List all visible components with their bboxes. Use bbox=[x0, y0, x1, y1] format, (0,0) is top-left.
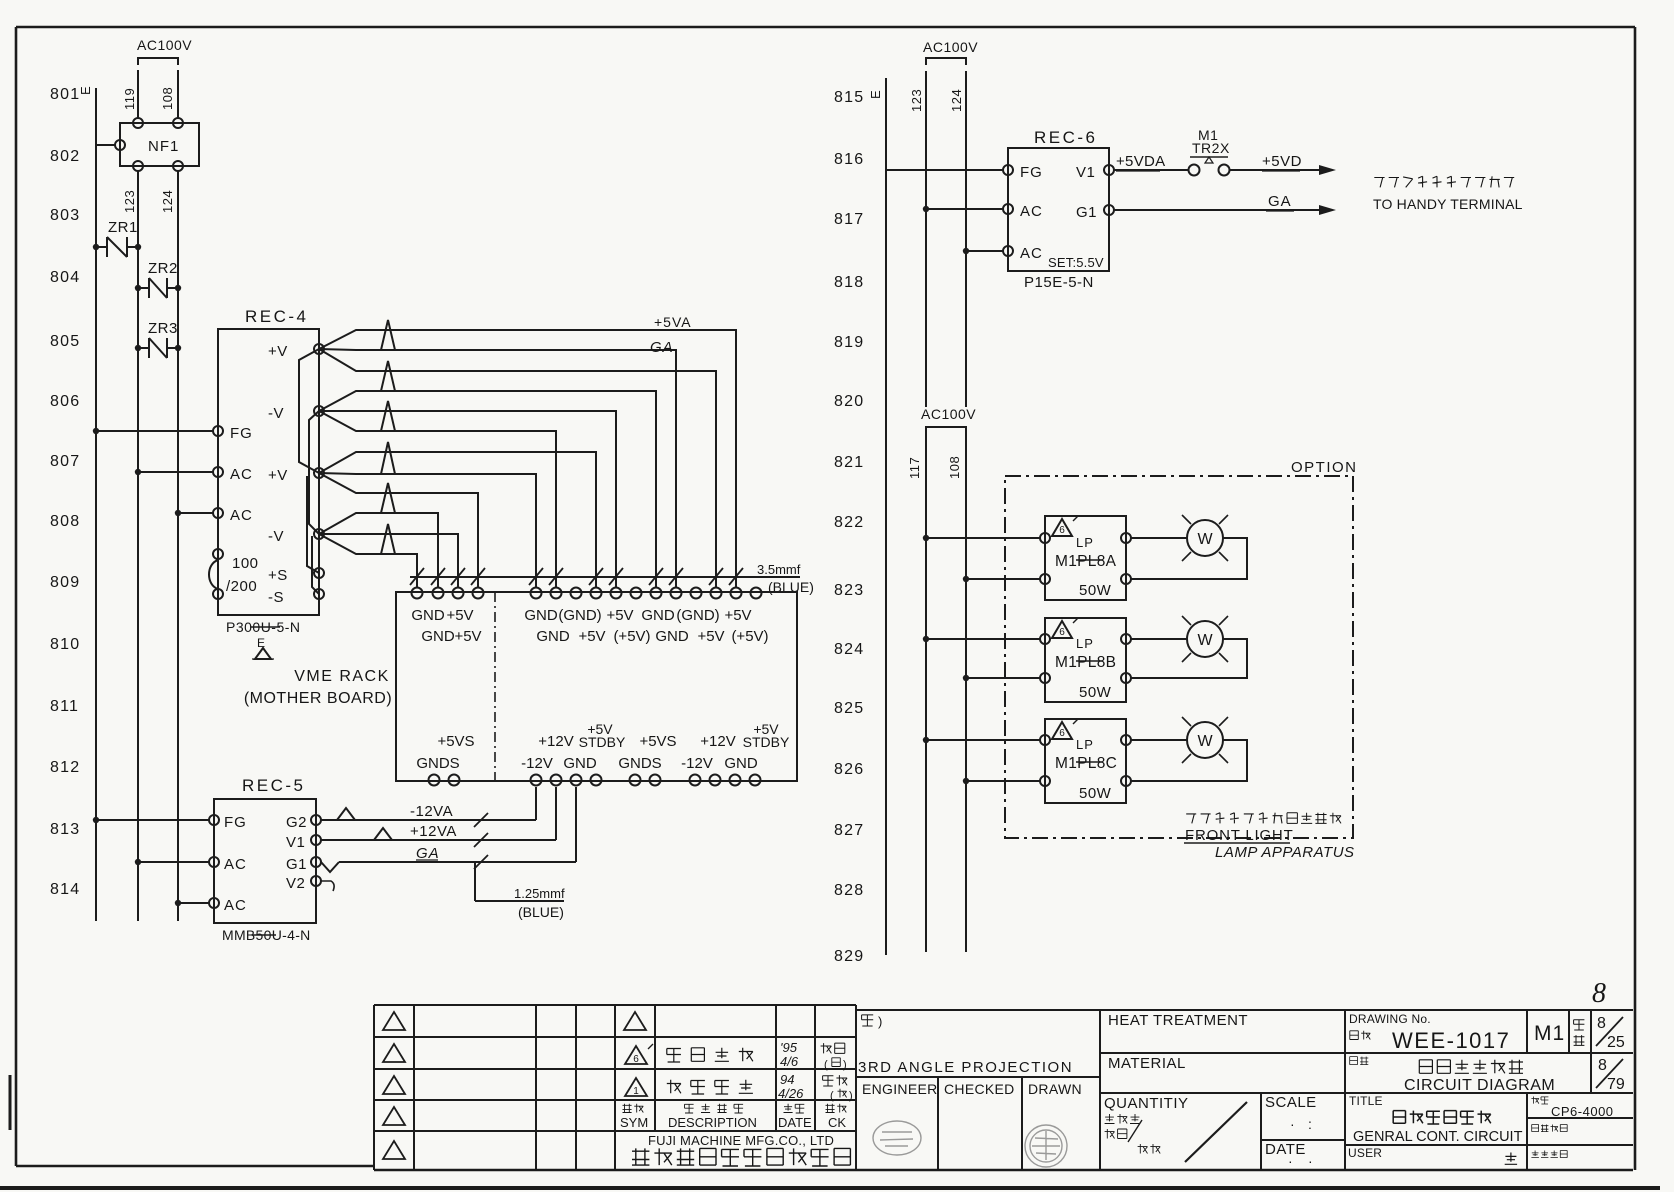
svg-text:(BLUE): (BLUE) bbox=[518, 904, 564, 920]
svg-text:4/26: 4/26 bbox=[778, 1086, 804, 1101]
svg-text:AC: AC bbox=[230, 466, 253, 483]
svg-text:8: 8 bbox=[1597, 1015, 1606, 1032]
svg-text:V1: V1 bbox=[1076, 164, 1095, 181]
svg-text:822: 822 bbox=[834, 514, 864, 531]
svg-text:828: 828 bbox=[834, 882, 864, 899]
svg-text:'95: '95 bbox=[780, 1040, 798, 1055]
svg-text:806: 806 bbox=[50, 393, 80, 410]
svg-text:): ) bbox=[849, 1090, 853, 1102]
svg-text:GND: GND bbox=[536, 628, 570, 645]
svg-text:QUANTITIY: QUANTITIY bbox=[1104, 1095, 1189, 1112]
svg-text:SYM: SYM bbox=[620, 1115, 648, 1130]
svg-text:+5V: +5V bbox=[578, 628, 605, 645]
svg-text:ZR3: ZR3 bbox=[148, 320, 178, 337]
svg-text:DRAWN: DRAWN bbox=[1028, 1081, 1082, 1097]
svg-text:G1: G1 bbox=[1076, 204, 1097, 221]
svg-text:813: 813 bbox=[50, 821, 80, 838]
svg-text:·: · bbox=[1288, 1153, 1293, 1169]
svg-text:+5V: +5V bbox=[724, 607, 751, 624]
svg-text:GND: GND bbox=[655, 628, 689, 645]
svg-text:826: 826 bbox=[834, 761, 864, 778]
svg-text:E: E bbox=[78, 86, 93, 95]
svg-text:809: 809 bbox=[50, 574, 80, 591]
svg-text:6: 6 bbox=[1059, 627, 1065, 638]
svg-text:-12V: -12V bbox=[681, 755, 713, 772]
svg-text:GND: GND bbox=[641, 607, 675, 624]
svg-text:+12V: +12V bbox=[700, 733, 735, 750]
svg-text:123: 123 bbox=[909, 89, 924, 112]
svg-text:25: 25 bbox=[1607, 1034, 1625, 1051]
svg-text:50W: 50W bbox=[1079, 684, 1112, 701]
svg-text:108: 108 bbox=[947, 456, 962, 479]
svg-text:VME RACK: VME RACK bbox=[294, 668, 390, 685]
svg-text:GND: GND bbox=[724, 755, 758, 772]
svg-text:M1PL8C: M1PL8C bbox=[1055, 755, 1117, 772]
svg-text:LAMP APPARATUS: LAMP APPARATUS bbox=[1215, 844, 1355, 861]
svg-text:REC-5: REC-5 bbox=[242, 776, 306, 795]
svg-text:825: 825 bbox=[834, 700, 864, 717]
svg-text:808: 808 bbox=[50, 513, 80, 530]
svg-text:119: 119 bbox=[122, 88, 137, 110]
svg-text:W: W bbox=[1197, 733, 1213, 750]
svg-text:817: 817 bbox=[834, 211, 864, 228]
svg-text:/200: /200 bbox=[226, 578, 257, 595]
svg-text:803: 803 bbox=[50, 207, 80, 224]
svg-text:FG: FG bbox=[224, 814, 247, 831]
svg-text:FRONT LIGHT: FRONT LIGHT bbox=[1185, 827, 1294, 844]
svg-text:6: 6 bbox=[1059, 525, 1065, 536]
svg-text:ENGINEER: ENGINEER bbox=[862, 1081, 938, 1097]
svg-text:WEE-1017: WEE-1017 bbox=[1392, 1028, 1510, 1053]
svg-text:117: 117 bbox=[907, 457, 922, 479]
svg-text:820: 820 bbox=[834, 393, 864, 410]
svg-text:): ) bbox=[878, 1014, 882, 1029]
svg-text:M1: M1 bbox=[1534, 1022, 1565, 1045]
svg-text:SCALE: SCALE bbox=[1265, 1094, 1317, 1111]
svg-text:CP6-4000: CP6-4000 bbox=[1551, 1104, 1614, 1119]
svg-text:1.25mmf: 1.25mmf bbox=[514, 886, 565, 901]
svg-text:NF1: NF1 bbox=[148, 138, 179, 155]
svg-text:·: · bbox=[1290, 1116, 1295, 1132]
svg-text:AC: AC bbox=[1020, 203, 1043, 220]
svg-text:GENRAL CONT. CIRCUIT: GENRAL CONT. CIRCUIT bbox=[1353, 1129, 1523, 1145]
svg-text:3.5mmf: 3.5mmf bbox=[757, 562, 801, 577]
svg-text:(: ( bbox=[830, 1090, 834, 1102]
svg-text:AC: AC bbox=[1020, 245, 1043, 262]
svg-text:8: 8 bbox=[1592, 978, 1606, 1009]
svg-text:100: 100 bbox=[232, 555, 259, 572]
svg-text:+V: +V bbox=[268, 467, 288, 484]
svg-text:REC-6: REC-6 bbox=[1034, 128, 1098, 147]
svg-text:8: 8 bbox=[1598, 1057, 1607, 1074]
svg-text:-S: -S bbox=[268, 589, 284, 606]
svg-text:LP: LP bbox=[1076, 535, 1094, 550]
svg-text:TO HANDY TERMINAL: TO HANDY TERMINAL bbox=[1373, 196, 1523, 212]
svg-text:GA: GA bbox=[1268, 193, 1292, 210]
svg-text:79: 79 bbox=[1607, 1076, 1625, 1093]
svg-text:DATE: DATE bbox=[1265, 1141, 1306, 1158]
svg-text:819: 819 bbox=[834, 334, 864, 351]
svg-text:3RD ANGLE PROJECTION: 3RD ANGLE PROJECTION bbox=[858, 1059, 1073, 1076]
svg-text:823: 823 bbox=[834, 582, 864, 599]
svg-text:+12VA: +12VA bbox=[410, 823, 457, 840]
svg-text:804: 804 bbox=[50, 269, 80, 286]
svg-text:+5VD: +5VD bbox=[1262, 153, 1302, 170]
svg-text:1: 1 bbox=[633, 1086, 639, 1097]
svg-text:AC100V: AC100V bbox=[137, 37, 192, 53]
svg-text:+S: +S bbox=[268, 567, 288, 584]
svg-text:LP: LP bbox=[1076, 737, 1094, 752]
svg-text:GA: GA bbox=[650, 339, 674, 356]
svg-text:DESCRIPTION: DESCRIPTION bbox=[668, 1115, 757, 1130]
svg-text:CIRCUIT DIAGRAM: CIRCUIT DIAGRAM bbox=[1404, 1077, 1555, 1094]
svg-text:816: 816 bbox=[834, 151, 864, 168]
svg-text:M1PL8B: M1PL8B bbox=[1055, 654, 1116, 671]
svg-text:812: 812 bbox=[50, 759, 80, 776]
svg-text:G2: G2 bbox=[286, 814, 307, 831]
svg-text:GND: GND bbox=[421, 628, 455, 645]
svg-text::: : bbox=[1308, 1116, 1312, 1132]
svg-text:814: 814 bbox=[50, 881, 80, 898]
svg-text:(: ( bbox=[824, 1059, 828, 1071]
svg-text:GND: GND bbox=[411, 607, 445, 624]
svg-text:·: · bbox=[1308, 1153, 1313, 1169]
svg-text:108: 108 bbox=[160, 87, 175, 110]
svg-text:STDBY: STDBY bbox=[579, 734, 626, 750]
svg-text:ZR2: ZR2 bbox=[148, 260, 178, 277]
svg-text:+5VDA: +5VDA bbox=[1116, 153, 1165, 170]
svg-text:+5V: +5V bbox=[446, 607, 473, 624]
svg-text:ZR1: ZR1 bbox=[108, 219, 138, 236]
svg-text:AC: AC bbox=[224, 856, 247, 873]
svg-text:+5VA: +5VA bbox=[654, 314, 692, 330]
svg-text:-12VA: -12VA bbox=[410, 803, 453, 820]
svg-text:HEAT TREATMENT: HEAT TREATMENT bbox=[1108, 1012, 1248, 1029]
svg-text:+12V: +12V bbox=[538, 733, 573, 750]
svg-text:-V: -V bbox=[268, 405, 284, 422]
svg-text:(GND): (GND) bbox=[676, 607, 719, 624]
svg-text:TITLE: TITLE bbox=[1349, 1094, 1383, 1108]
svg-text:W: W bbox=[1197, 531, 1213, 548]
svg-text:FG: FG bbox=[1020, 164, 1043, 181]
svg-text:+5VS: +5VS bbox=[437, 733, 474, 750]
svg-text:AC: AC bbox=[230, 507, 253, 524]
svg-text:MATERIAL: MATERIAL bbox=[1108, 1055, 1186, 1072]
svg-text:50W: 50W bbox=[1079, 582, 1112, 599]
svg-text:V1: V1 bbox=[286, 834, 305, 851]
svg-text:802: 802 bbox=[50, 148, 80, 165]
svg-text:124: 124 bbox=[949, 89, 964, 112]
svg-text:+5V: +5V bbox=[697, 628, 724, 645]
svg-text:(GND): (GND) bbox=[558, 607, 601, 624]
svg-text:SET:5.5V: SET:5.5V bbox=[1048, 255, 1104, 270]
svg-text:USER: USER bbox=[1348, 1146, 1382, 1160]
svg-text:AC100V: AC100V bbox=[923, 39, 978, 55]
svg-text:DATE: DATE bbox=[778, 1115, 812, 1130]
svg-text:815: 815 bbox=[834, 89, 864, 106]
svg-text:V2: V2 bbox=[286, 875, 305, 892]
svg-text:824: 824 bbox=[834, 641, 864, 658]
svg-text:+5V: +5V bbox=[454, 628, 481, 645]
svg-text:805: 805 bbox=[50, 333, 80, 350]
svg-text:801: 801 bbox=[50, 86, 80, 103]
svg-text:CHECKED: CHECKED bbox=[944, 1081, 1015, 1097]
svg-text:+5V: +5V bbox=[606, 607, 633, 624]
svg-text:+5VS: +5VS bbox=[639, 733, 676, 750]
svg-text:GNDS: GNDS bbox=[618, 755, 661, 772]
svg-text:): ) bbox=[843, 1059, 847, 1071]
svg-text:OPTION: OPTION bbox=[1291, 459, 1358, 476]
svg-text:(MOTHER BOARD): (MOTHER BOARD) bbox=[244, 690, 392, 707]
svg-text:P15E-5-N: P15E-5-N bbox=[1024, 274, 1094, 291]
svg-text:829: 829 bbox=[834, 948, 864, 965]
svg-text:REC-4: REC-4 bbox=[245, 307, 309, 326]
svg-text:94: 94 bbox=[780, 1072, 794, 1087]
svg-text:4/6: 4/6 bbox=[780, 1054, 799, 1069]
svg-text:(+5V): (+5V) bbox=[731, 628, 768, 645]
svg-text:AC: AC bbox=[224, 897, 247, 914]
svg-text:TR2X: TR2X bbox=[1192, 140, 1230, 156]
svg-text:GNDS: GNDS bbox=[416, 755, 459, 772]
svg-text:818: 818 bbox=[834, 274, 864, 291]
svg-text:DRAWING No.: DRAWING No. bbox=[1349, 1012, 1431, 1026]
svg-text:50W: 50W bbox=[1079, 785, 1112, 802]
svg-text:FUJI MACHINE MFG.CO., LTD: FUJI MACHINE MFG.CO., LTD bbox=[648, 1133, 834, 1148]
svg-text:-12V: -12V bbox=[521, 755, 553, 772]
svg-text:AC100V: AC100V bbox=[921, 406, 976, 422]
svg-text:810: 810 bbox=[50, 636, 80, 653]
svg-text:GND: GND bbox=[563, 755, 597, 772]
svg-text:6: 6 bbox=[1059, 728, 1065, 739]
svg-text:CK: CK bbox=[828, 1115, 846, 1130]
svg-text:W: W bbox=[1197, 632, 1213, 649]
svg-text:FG: FG bbox=[230, 425, 253, 442]
svg-text:811: 811 bbox=[50, 698, 79, 715]
svg-text:124: 124 bbox=[160, 190, 175, 213]
svg-text:+V: +V bbox=[268, 343, 288, 360]
svg-text:821: 821 bbox=[834, 454, 864, 471]
svg-text:G1: G1 bbox=[286, 856, 307, 873]
svg-text:M1PL8A: M1PL8A bbox=[1055, 553, 1117, 570]
svg-text:6: 6 bbox=[633, 1054, 639, 1065]
svg-text:E: E bbox=[868, 90, 883, 99]
svg-text:807: 807 bbox=[50, 453, 80, 470]
svg-text:LP: LP bbox=[1076, 636, 1094, 651]
svg-text:123: 123 bbox=[122, 190, 137, 213]
svg-text:STDBY: STDBY bbox=[743, 734, 790, 750]
svg-text:(+5V): (+5V) bbox=[613, 628, 650, 645]
svg-text:GND: GND bbox=[524, 607, 558, 624]
svg-text:827: 827 bbox=[834, 822, 864, 839]
svg-text:-V: -V bbox=[268, 528, 284, 545]
